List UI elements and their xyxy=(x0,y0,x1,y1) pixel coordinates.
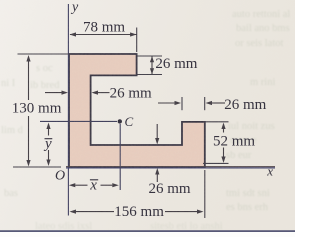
dimension 52 mm xyxy=(221,123,225,164)
dimension 156 mm xyxy=(70,210,204,214)
y-axis xyxy=(67,4,69,216)
centroid horizontal extension line xyxy=(40,120,117,122)
label web 26 mm xyxy=(110,86,152,102)
label 156 mm xyxy=(114,204,164,220)
dimension 130 mm xyxy=(26,55,30,167)
extension tick bottom-left xyxy=(13,166,61,168)
x-axis xyxy=(66,167,275,168)
pink mottling xyxy=(60,45,215,177)
dimension y-bar xyxy=(46,123,50,167)
label tab 26 mm xyxy=(224,97,266,113)
dimension 78 mm xyxy=(70,32,137,36)
label flange 26 mm xyxy=(155,56,197,72)
dimension x-bar xyxy=(69,183,119,187)
centroid C dot xyxy=(118,119,122,123)
centroid C label xyxy=(125,114,134,129)
x-axis label xyxy=(266,164,273,179)
origin label O xyxy=(55,169,65,184)
dimension bottom flange 26 mm arrows xyxy=(155,124,159,182)
extension line 156mm right xyxy=(204,170,206,218)
label y-bar xyxy=(43,136,52,152)
label 78 mm xyxy=(83,20,125,36)
extension ticks 52mm xyxy=(203,122,229,164)
extension ticks flange 26mm xyxy=(138,56,163,75)
dimension web 26 mm xyxy=(45,91,110,95)
label bottom flange 26 mm xyxy=(149,181,191,197)
extension ticks tab 26mm xyxy=(182,97,205,110)
bottom white margin xyxy=(0,232,295,237)
C-shaped area (pink section) xyxy=(69,54,205,167)
label 130 mm xyxy=(12,101,62,117)
dimension tab 26 mm xyxy=(158,101,225,105)
y-axis label xyxy=(70,0,79,15)
bottom rule line xyxy=(0,230,295,232)
label 52 mm xyxy=(213,134,255,150)
dimension flange 26 mm xyxy=(150,56,154,74)
centroid vertical extension line xyxy=(119,124,121,190)
label x-bar xyxy=(89,177,98,193)
extension tick top-left (130 mm) xyxy=(18,53,69,55)
extension line 78mm right xyxy=(136,28,138,53)
